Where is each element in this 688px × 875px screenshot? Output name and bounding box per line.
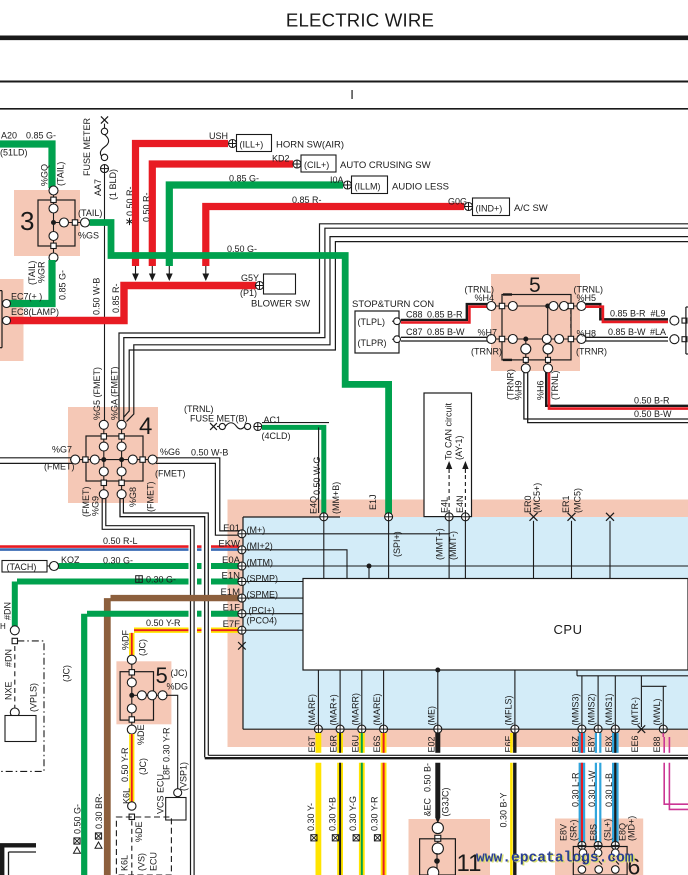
svg-text:0.30 G-: 0.30 G- <box>103 556 133 566</box>
svg-text:(ILLM): (ILLM) <box>355 182 381 192</box>
svg-text:0.85 B-R: 0.85 B-R <box>610 309 646 319</box>
svg-text:(MAR+): (MAR+) <box>329 694 339 725</box>
svg-text:(MFLS): (MFLS) <box>503 696 513 726</box>
wire VSP1 to VCS ECU <box>166 695 186 820</box>
svg-text:E6T: E6T <box>307 735 317 752</box>
stop and turn connector TLPL TLPR <box>352 299 434 353</box>
labels E1J SPI+ <box>368 494 458 560</box>
svg-text:L8F 0.30 Y-R: L8F 0.30 Y-R <box>162 727 172 780</box>
connector 6 labels <box>559 816 637 841</box>
svg-text:%H9: %H9 <box>514 380 524 400</box>
labels K6L 0.50 Y-R %DE JC <box>120 724 148 804</box>
connector 3 highlight <box>14 190 80 256</box>
svg-text:K6L: K6L <box>119 855 129 871</box>
svg-text:0.85 G-: 0.85 G- <box>26 131 56 141</box>
wire W-B from %G9 down to bottom <box>102 497 194 875</box>
svg-text:(TAIL): (TAIL) <box>27 261 37 285</box>
svg-text:VCS ECU: VCS ECU <box>156 774 166 814</box>
svg-text:(JC): (JC) <box>137 639 147 656</box>
labels #DN <box>0 602 14 667</box>
svg-text:(TRNL): (TRNL) <box>550 371 560 401</box>
wire 0.30 Y- E6T <box>315 733 321 875</box>
svg-text:(JC): (JC) <box>138 758 148 775</box>
wire C87 0.85 B-W <box>401 327 487 341</box>
svg-text:E4L: E4L <box>440 497 450 513</box>
svg-text:EE6: EE6 <box>630 735 640 752</box>
svg-text:3: 3 <box>20 206 34 236</box>
wire 0.50 W-B %G6 to E01 <box>156 458 240 535</box>
TACH box and wire KOZ 0.30 G- <box>2 555 239 572</box>
svg-text:E4Q: E4Q <box>309 496 319 514</box>
switch box ILL+ HORN SW <box>209 131 344 152</box>
CPU block blue body <box>243 517 688 729</box>
svg-text:%G8: %G8 <box>128 487 138 507</box>
fuse MET(B) TRNL <box>184 404 291 441</box>
wire 0.50 G- PCI+ <box>84 614 239 875</box>
connector 5 JC <box>120 655 188 734</box>
wire 0.50 R- to CIL+ <box>152 164 293 266</box>
svg-text:ELECTRIC WIRE: ELECTRIC WIRE <box>286 10 434 31</box>
svg-text:FUSE METER: FUSE METER <box>82 117 92 176</box>
svg-text:%H7: %H7 <box>478 328 498 338</box>
svg-text:www.epcatalogs.com: www.epcatalogs.com <box>476 851 634 867</box>
svg-text:0.30 Y-: 0.30 Y- <box>306 803 316 831</box>
svg-text:ECU: ECU <box>148 852 158 871</box>
svg-text:(1 BLD): (1 BLD) <box>108 169 118 200</box>
dash-dot boundary VPLS <box>0 641 44 772</box>
connector 6 <box>573 841 640 875</box>
svg-text:(VPLS): (VPLS) <box>29 683 39 712</box>
CPU bottom pins <box>314 725 667 733</box>
label EC7 EC8 <box>11 292 59 318</box>
svg-text:0.50 B-W: 0.50 B-W <box>634 409 672 419</box>
svg-text:EC7(+ ): EC7(+ ) <box>11 292 42 302</box>
labels connector 5 <box>465 285 608 401</box>
wire 0.50 B-R <box>546 373 688 409</box>
svg-text:0.50 R-L: 0.50 R-L <box>103 536 138 546</box>
wire 0.30 Y-B E6R <box>337 733 343 875</box>
svg-text:(TLPL): (TLPL) <box>358 317 386 327</box>
CPU left pin lines <box>243 534 688 630</box>
svg-text:(CIL+): (CIL+) <box>304 160 329 170</box>
connector 4 <box>70 413 157 499</box>
wire 0.50 B- E02 <box>436 733 441 824</box>
svg-text:E4N: E4N <box>455 495 465 513</box>
svg-text:(SPMP): (SPMP) <box>247 574 279 584</box>
svg-text:(SPME): (SPME) <box>247 590 279 600</box>
svg-text:(51LD): (51LD) <box>0 148 28 158</box>
svg-text:FUSE MET(B): FUSE MET(B) <box>190 414 248 424</box>
connector 3 <box>20 186 90 262</box>
svg-text:5: 5 <box>529 274 541 297</box>
CPU salmon ring <box>228 500 688 748</box>
connector 4 highlight <box>68 407 158 503</box>
svg-text:I: I <box>350 87 354 102</box>
svg-text:HORN SW(AIR): HORN SW(AIR) <box>276 140 344 151</box>
svg-text:To CAN circuit: To CAN circuit <box>444 402 454 460</box>
column label I <box>350 87 354 102</box>
wire 0.85 R- to IND+ <box>206 207 464 267</box>
wire 0.30 B-Y E6E <box>511 733 514 875</box>
wire 0.50 Y-R K6L below 5JC <box>128 734 136 875</box>
svg-text:E6U: E6U <box>350 735 360 753</box>
label FUSE METER AA7 vertical <box>82 117 118 200</box>
fuse meter AA7 (1 BLD) <box>100 116 108 421</box>
svg-text:(ME): (ME) <box>426 706 436 726</box>
EC7 EC8 pins <box>3 300 11 325</box>
wire 0.85 B-R #L9 <box>586 304 668 322</box>
label (TAIL) %GR 0.85 G- vertical <box>27 261 68 300</box>
svg-text:(PCI+): (PCI+) <box>249 606 275 616</box>
svg-text:#DN: #DN <box>4 649 14 667</box>
svg-text:0.30 Y-B: 0.30 Y-B <box>327 797 337 831</box>
svg-text:(IND+): (IND+) <box>476 204 503 214</box>
svg-text:E0A: E0A <box>222 555 241 566</box>
svg-text:(TAIL): (TAIL) <box>78 208 102 218</box>
svg-text:G5Y: G5Y <box>241 273 259 283</box>
svg-text:E1F: E1F <box>223 603 241 614</box>
wire 0.50 B-W <box>524 373 688 423</box>
svg-text:KOZ: KOZ <box>61 555 80 565</box>
svg-text:(4CLD): (4CLD) <box>262 431 291 441</box>
connector 5 (JC) highlight <box>116 661 171 724</box>
svg-text:0.85 G-: 0.85 G- <box>58 270 68 300</box>
svg-text:(TAIL): (TAIL) <box>56 162 66 186</box>
svg-text:E6S: E6S <box>372 735 382 752</box>
svg-text:E8S: E8S <box>589 824 599 841</box>
svg-text:USH: USH <box>209 131 228 141</box>
right edge connector <box>670 307 688 354</box>
svg-text:K6L: K6L <box>121 788 131 804</box>
connector EC7 EC8 <box>0 291 11 348</box>
svg-text:(AY-1): (AY-1) <box>454 435 464 460</box>
wire 0.50 R-L <box>0 536 239 550</box>
connector 5 (TRNL) highlight <box>491 274 580 371</box>
svg-text:#L9: #L9 <box>651 309 666 319</box>
svg-text:E7F: E7F <box>223 619 241 630</box>
svg-text:%GQ: %GQ <box>40 164 50 186</box>
svg-text:0.85 B-R: 0.85 B-R <box>427 310 463 320</box>
svg-text:0.30 G-: 0.30 G- <box>146 575 176 585</box>
svg-text:0.50 B-R: 0.50 B-R <box>634 396 670 406</box>
svg-text:0.85 B-W: 0.85 B-W <box>427 327 465 337</box>
wire C88 0.85 B-R <box>401 304 487 322</box>
svg-text:(JC): (JC) <box>171 668 188 678</box>
svg-text:C87: C87 <box>406 327 423 337</box>
watermark <box>476 851 635 868</box>
svg-text:0.50 B-: 0.50 B- <box>423 763 433 792</box>
label %GQ (TAIL) vertical <box>40 162 66 186</box>
svg-text:0.30 BR-: 0.30 BR- <box>94 793 104 829</box>
label (JC) vertical <box>62 665 72 682</box>
svg-text:E1N: E1N <box>222 571 241 582</box>
wire 0.30 L-B E8X <box>612 733 619 842</box>
svg-text:E88: E88 <box>652 736 662 752</box>
wire 0.30 L-R E8Z <box>579 733 586 842</box>
connector 11 highlight <box>409 819 491 875</box>
svg-text:(MTR-): (MTR-) <box>630 697 640 726</box>
svg-text:(PCO4): (PCO4) <box>247 616 278 626</box>
svg-text:A/C SW: A/C SW <box>514 203 548 214</box>
svg-text:(TRNR): (TRNR) <box>471 347 502 357</box>
svg-text:(MARE): (MARE) <box>372 694 382 726</box>
wire W-B from %G8 forming ECU frame bottom <box>120 497 688 758</box>
svg-text:ER1: ER1 <box>561 495 571 513</box>
labels %DF (JC) <box>120 629 147 656</box>
connector 5 TRNL <box>487 274 586 373</box>
labels ER0 ER1 <box>523 483 583 513</box>
svg-text:%H5: %H5 <box>577 293 597 303</box>
svg-text:0.50 G-: 0.50 G- <box>227 244 257 254</box>
svg-text:STOP&TURN CON: STOP&TURN CON <box>352 299 434 310</box>
svg-text:0.30 Y-R: 0.30 Y-R <box>370 796 380 831</box>
svg-text:(TACH): (TACH) <box>7 562 37 572</box>
svg-text:AA7: AA7 <box>93 179 103 196</box>
frame corner bottom left <box>0 845 36 875</box>
wire 0.50 Y-R PCO4 <box>132 618 239 655</box>
svg-text:#DN: #DN <box>3 602 13 620</box>
svg-text:%H6: %H6 <box>536 380 546 400</box>
wire 0.30 L-W E8Y <box>595 733 602 842</box>
svg-text:&EC: &EC <box>423 797 433 816</box>
svg-text:(VS): (VS) <box>136 853 146 871</box>
svg-text:%DF: %DF <box>120 629 130 650</box>
svg-text:0.30 L-B: 0.30 L-B <box>604 773 614 807</box>
wire 0.85 G- A20 <box>0 144 52 188</box>
svg-text:BLOWER SW: BLOWER SW <box>251 299 310 310</box>
svg-text:(SPI+): (SPI+) <box>392 531 402 557</box>
connector EC7/EC8 highlight <box>0 279 24 361</box>
wire 0.50 W-G to E4Q <box>262 423 329 513</box>
wire 0.30 G- SPMP <box>15 575 239 627</box>
label 0.50 W-G E4Q (MM+B) <box>309 457 342 514</box>
svg-text:0.50 Y-R: 0.50 Y-R <box>146 618 181 628</box>
bottom wire labels <box>306 763 614 841</box>
labels connector 4 <box>44 366 228 517</box>
svg-text:(FMET): (FMET) <box>155 469 186 479</box>
svg-text:E1J: E1J <box>368 494 378 510</box>
svg-text:0.50 G-: 0.50 G- <box>73 804 83 834</box>
svg-text:AUTO CRUSING SW: AUTO CRUSING SW <box>340 160 431 171</box>
svg-text:(SL+): (SL+) <box>603 819 613 841</box>
title ELECTRIC WIRE <box>286 10 434 31</box>
blower switch box <box>240 273 310 310</box>
CPU bottom internal lines <box>318 668 688 728</box>
svg-text:%DG: %DG <box>167 682 189 692</box>
svg-text:0.50 Y-R: 0.50 Y-R <box>120 747 130 782</box>
CPU inner box <box>303 579 688 671</box>
svg-text:(G3JC): (G3JC) <box>441 787 451 816</box>
wire 0.85 B-W #LA <box>586 327 668 341</box>
svg-text:0.85 R-: 0.85 R- <box>111 283 121 313</box>
svg-text:0.85 G-: 0.85 G- <box>229 174 259 184</box>
svg-text:0.50 W-B: 0.50 W-B <box>191 448 228 458</box>
wire 0.85 G- EC7 <box>9 260 52 304</box>
svg-text:(MD+): (MD+) <box>627 816 637 841</box>
svg-text:(VSP1): (VSP1) <box>179 762 189 791</box>
svg-text:(MTM): (MTM) <box>247 558 274 568</box>
svg-text:KD2: KD2 <box>272 154 290 164</box>
svg-text:EC8(LAMP): EC8(LAMP) <box>11 307 59 317</box>
svg-text:#LA: #LA <box>650 327 666 337</box>
VS ECU dashed box <box>116 817 171 875</box>
arrows down x4 <box>132 266 139 281</box>
svg-text:0.85 B-W: 0.85 B-W <box>608 327 646 337</box>
svg-text:(MI+2): (MI+2) <box>247 541 273 551</box>
To CAN circuit box <box>424 393 472 517</box>
svg-text:%GR: %GR <box>37 261 47 283</box>
svg-text:(MC5): (MC5) <box>573 488 583 513</box>
svg-text:I0A: I0A <box>330 175 344 185</box>
svg-text:E02: E02 <box>426 736 436 752</box>
svg-text:(MM+B): (MM+B) <box>331 482 341 514</box>
CPU bottom pin labels <box>307 693 662 753</box>
labels 0.50 G- 0.30 BR- vertical with symbols <box>73 793 105 853</box>
svg-text:0.50 W-B: 0.50 W-B <box>92 278 102 315</box>
svg-text:E01: E01 <box>223 523 240 534</box>
svg-text:(TRNR): (TRNR) <box>576 347 607 357</box>
svg-text:(P1): (P1) <box>240 288 257 298</box>
TLPL TLPR pins <box>392 318 401 343</box>
W-B bus pair B to connector 4 <box>124 237 688 422</box>
title rule thick <box>0 35 688 40</box>
svg-text:(SR-): (SR-) <box>569 820 579 842</box>
svg-text:EKW: EKW <box>218 539 240 550</box>
svg-text:0.30 Y-G: 0.30 Y-G <box>348 796 358 831</box>
svg-text:%G5 (FMET): %G5 (FMET) <box>92 367 102 420</box>
svg-text:(MWL): (MWL) <box>652 699 662 726</box>
label 0.50 G- <box>227 244 257 254</box>
svg-text:%G6: %G6 <box>160 447 180 457</box>
switch box CIL+ AUTO CRUSING SW <box>272 154 431 173</box>
wire 0.85 R- EC8 blower <box>9 286 256 321</box>
svg-text:%G9: %G9 <box>91 496 101 516</box>
labels L8F VSP1 VCS ECU <box>156 727 189 814</box>
svg-text:H: H <box>0 622 6 631</box>
connector 6 highlight <box>555 819 643 875</box>
svg-text:AC1: AC1 <box>264 415 282 425</box>
W-B bus pair A to connector 4 <box>119 224 688 421</box>
svg-text:(MARF): (MARF) <box>307 694 317 726</box>
svg-text:%DE: %DE <box>134 821 144 842</box>
svg-text:E8V: E8V <box>559 824 569 841</box>
label (TAIL) %GS <box>78 208 102 241</box>
svg-text:%G7: %G7 <box>52 445 72 455</box>
svg-text:A20: A20 <box>1 131 17 141</box>
switch box ILLM AUDIO LESS <box>229 174 449 194</box>
svg-text:%GA (FMET): %GA (FMET) <box>110 366 120 420</box>
wire 0.50 R- to ILL+ <box>136 144 229 267</box>
svg-text:0.85 R-: 0.85 R- <box>292 195 322 205</box>
svg-text:(MMS2): (MMS2) <box>587 694 597 726</box>
svg-text:(MMS3): (MMS3) <box>570 694 580 726</box>
svg-text:%H4: %H4 <box>475 293 495 303</box>
connector 11 <box>420 822 482 875</box>
svg-text:0.30 L-W: 0.30 L-W <box>587 770 597 807</box>
header rule 3 <box>0 108 688 110</box>
svg-text:E6R: E6R <box>329 734 339 752</box>
svg-text:0.30 B-Y: 0.30 B-Y <box>499 792 509 827</box>
wire 0.85 G- to ILLM <box>169 185 343 266</box>
svg-text:CPU: CPU <box>554 622 583 637</box>
wire 0.50 G- long from %GS <box>90 223 389 515</box>
svg-text:(ILL+): (ILL+) <box>240 140 264 150</box>
svg-text:(MMS1): (MMS1) <box>604 694 614 726</box>
CPU top pins <box>320 513 614 521</box>
svg-text:%DE: %DE <box>136 724 146 745</box>
svg-text:C88: C88 <box>406 310 423 320</box>
svg-text:(MMT+): (MMT+) <box>434 528 444 560</box>
wire #DN pins <box>10 626 19 717</box>
switch box IND+ A/C SW <box>292 195 548 216</box>
wire 0.30 Y-R E6S <box>381 733 387 875</box>
svg-text:(FMET): (FMET) <box>146 482 156 513</box>
wire 0.30 BR- SPME <box>107 598 239 875</box>
svg-text:%GS: %GS <box>78 231 99 241</box>
wire 0.30 Y-G E6U <box>359 733 365 875</box>
svg-text:(TRNL): (TRNL) <box>184 404 214 414</box>
svg-text:(FMET): (FMET) <box>44 462 75 472</box>
header rule 2 <box>0 81 688 83</box>
svg-text:(FMET): (FMET) <box>81 487 91 518</box>
svg-text:0.50 W-G: 0.50 W-G <box>312 457 322 495</box>
CPU left pins <box>238 530 246 650</box>
svg-text:AUDIO LESS: AUDIO LESS <box>392 182 449 193</box>
svg-text:E1M: E1M <box>220 587 240 598</box>
svg-text:G0G: G0G <box>448 197 467 207</box>
svg-text:(MARR): (MARR) <box>350 693 360 726</box>
svg-text:(JC): (JC) <box>62 665 72 682</box>
label 0.50 W-B / 0.85 R- vertical <box>92 278 122 315</box>
label 0.50 R- with star vertical <box>125 186 152 225</box>
CPU label <box>554 622 583 637</box>
svg-text:(M+): (M+) <box>247 525 266 535</box>
CPU internal vertical lines <box>324 521 610 579</box>
svg-text:0.30 L-R: 0.30 L-R <box>571 772 581 807</box>
svg-text:(MC5+): (MC5+) <box>532 483 542 513</box>
svg-text:NXE: NXE <box>4 681 14 700</box>
NXE VPLS box <box>4 681 39 741</box>
wire W-B %G7 from left edge <box>0 458 73 464</box>
svg-text:(TLPR): (TLPR) <box>358 338 387 348</box>
CPU left pin labels <box>218 523 278 630</box>
wire MD- E88 magenta <box>663 733 688 809</box>
label A20 0.85 G- <box>0 131 56 158</box>
